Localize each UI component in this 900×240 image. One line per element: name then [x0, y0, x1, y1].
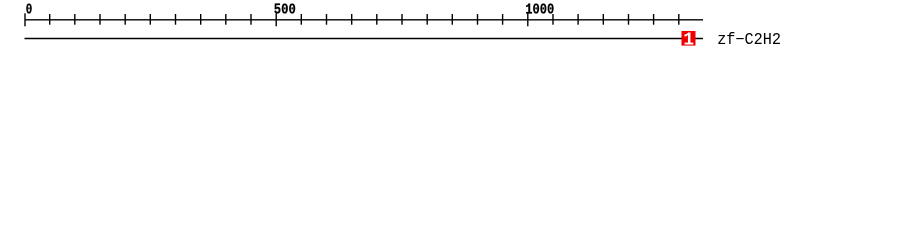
minor ticks — [553, 14, 679, 25]
major tick 500 — [275, 13, 277, 26]
svg-text:1000: 1000 — [525, 2, 554, 18]
minor ticks — [301, 14, 502, 25]
svg-text:1: 1 — [683, 30, 694, 50]
domain box 1 (zf-C2H2) — [682, 31, 696, 46]
ruler baseline — [25, 19, 704, 21]
svg-text:0: 0 — [26, 2, 33, 18]
svg-text:zf−C2H2: zf−C2H2 — [717, 30, 781, 49]
sequence line — [25, 38, 704, 40]
major tick 0 — [24, 13, 26, 26]
svg-text:500: 500 — [274, 2, 296, 18]
minor ticks — [50, 14, 251, 25]
major tick 1000 — [527, 13, 529, 26]
